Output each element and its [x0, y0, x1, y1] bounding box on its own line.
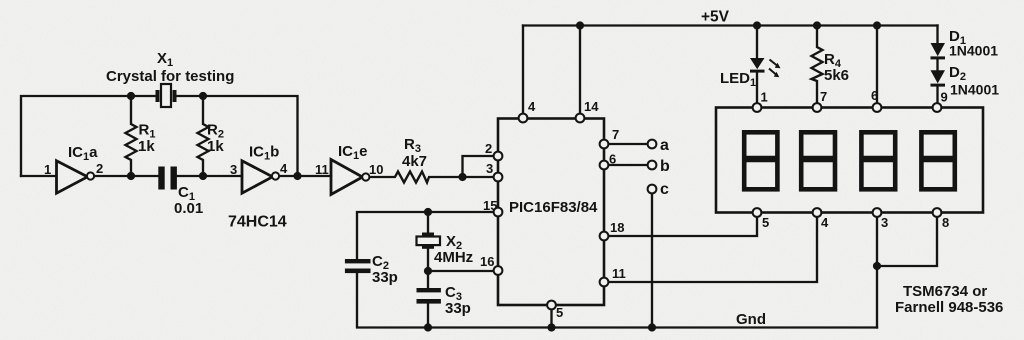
svg-text:3: 3 [881, 215, 888, 230]
svg-text:0.01: 0.01 [174, 200, 203, 217]
svg-text:Crystal for testing: Crystal for testing [106, 68, 234, 85]
svg-text:2: 2 [96, 161, 103, 176]
svg-text:TSM6734 or: TSM6734 or [903, 283, 987, 300]
svg-text:1: 1 [761, 90, 768, 105]
svg-text:10: 10 [369, 162, 383, 177]
svg-text:1N4001: 1N4001 [950, 82, 999, 98]
svg-text:a: a [660, 137, 669, 154]
svg-text:4: 4 [280, 161, 288, 176]
svg-text:5: 5 [556, 305, 563, 320]
svg-text:1N4001: 1N4001 [949, 43, 998, 59]
svg-text:6: 6 [609, 152, 616, 167]
svg-text:Gnd: Gnd [736, 311, 766, 328]
svg-text:33p: 33p [445, 300, 471, 317]
svg-text:c: c [660, 181, 669, 198]
svg-text:4: 4 [821, 215, 829, 230]
svg-text:74HC14: 74HC14 [228, 214, 287, 231]
svg-text:11: 11 [612, 266, 626, 281]
svg-text:3: 3 [230, 162, 237, 177]
svg-text:7: 7 [612, 127, 619, 142]
svg-text:4k7: 4k7 [402, 153, 427, 170]
svg-text:6: 6 [871, 88, 878, 103]
svg-text:15: 15 [483, 198, 497, 213]
svg-text:4: 4 [528, 99, 536, 114]
svg-text:1k: 1k [138, 138, 155, 155]
svg-text:8: 8 [942, 215, 949, 230]
svg-text:16: 16 [480, 254, 494, 269]
svg-text:5k6: 5k6 [824, 67, 849, 84]
svg-text:b: b [660, 158, 670, 175]
svg-text:PIC16F83/84: PIC16F83/84 [509, 199, 598, 216]
svg-text:9: 9 [941, 90, 948, 105]
svg-text:1: 1 [44, 162, 51, 177]
svg-text:33p: 33p [372, 269, 398, 286]
svg-text:Farnell 948-536: Farnell 948-536 [895, 299, 1003, 316]
svg-text:IC1e: IC1e [338, 143, 367, 162]
svg-text:2: 2 [485, 141, 492, 156]
svg-text:3: 3 [486, 161, 493, 176]
svg-text:7: 7 [820, 89, 827, 104]
svg-text:11: 11 [315, 162, 329, 177]
svg-text:5: 5 [762, 215, 769, 230]
svg-text:18: 18 [610, 220, 624, 235]
svg-text:+5V: +5V [701, 9, 730, 26]
svg-text:4MHz: 4MHz [434, 249, 473, 266]
svg-text:1k: 1k [207, 138, 224, 155]
svg-text:14: 14 [584, 99, 599, 114]
